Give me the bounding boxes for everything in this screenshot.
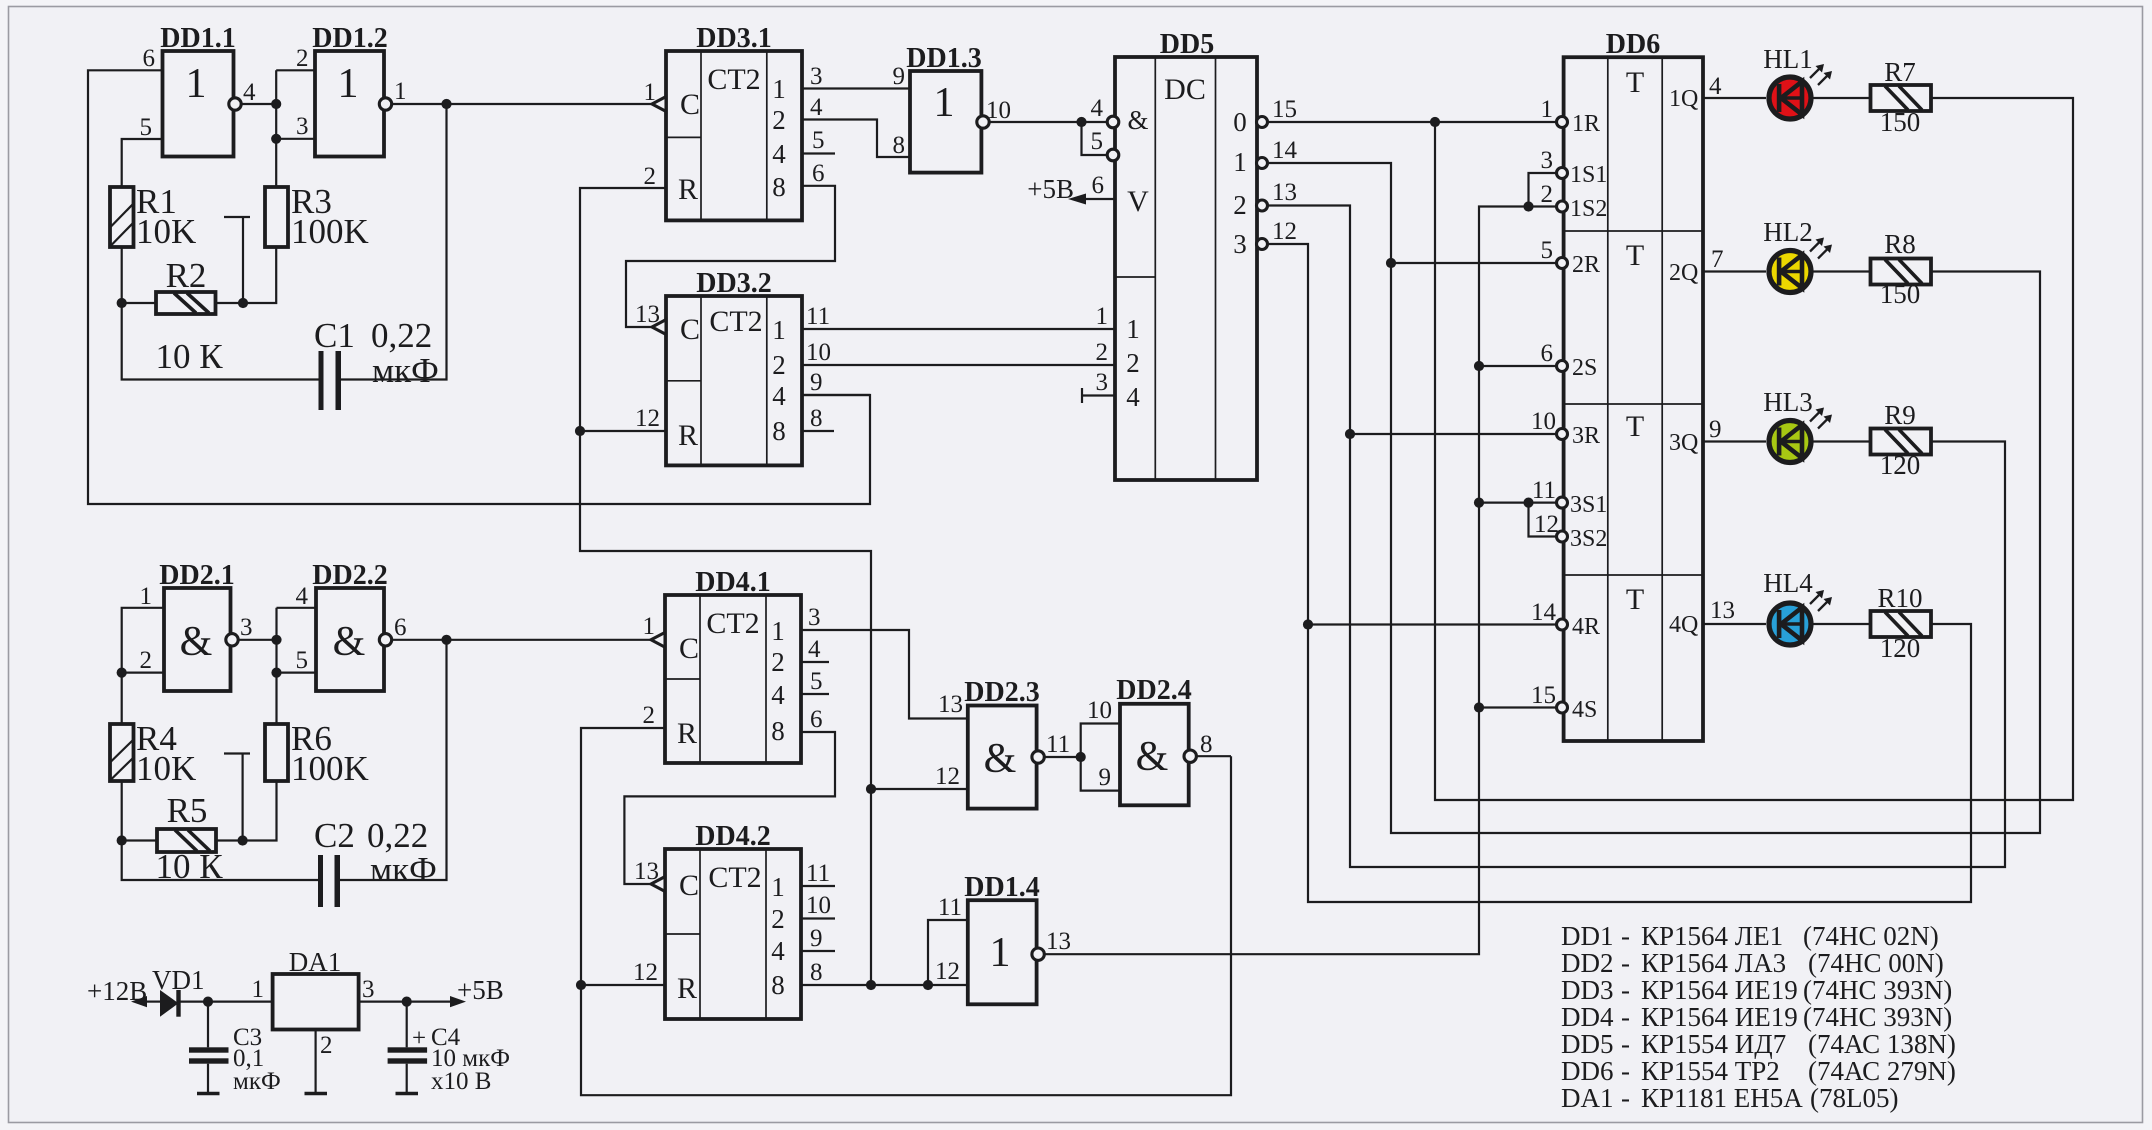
node pin3 [271, 134, 281, 144]
svg-text:13: 13 [1046, 928, 1071, 955]
svg-text:4: 4 [1091, 95, 1104, 122]
svg-text:3: 3 [296, 113, 309, 140]
wire R1 bottom to C1 [122, 247, 319, 380]
node reset tie [866, 980, 876, 990]
svg-text:&: & [180, 619, 213, 665]
+12V input arrow [87, 976, 160, 1007]
counter DD4.1 [643, 567, 802, 763]
svg-text:120: 120 [1880, 450, 1921, 480]
node DD4.2 R [576, 980, 586, 990]
wire HL4 to R10 [1811, 623, 1871, 625]
svg-text:DD1.4: DD1.4 [964, 872, 1039, 903]
svg-text:-: - [1621, 948, 1630, 978]
svg-text:10 К: 10 К [155, 847, 223, 886]
svg-text:HL1: HL1 [1763, 44, 1813, 74]
svg-text:4: 4 [1126, 382, 1140, 412]
svg-text:4: 4 [772, 139, 786, 169]
resistor R5 trimmer [155, 754, 250, 887]
svg-text:DD4.1: DD4.1 [695, 567, 770, 598]
svg-text:15: 15 [1272, 96, 1297, 123]
svg-text:2: 2 [772, 350, 786, 380]
svg-text:T: T [1626, 66, 1644, 99]
wire DD3.1 out4 pin5 stub [802, 152, 835, 154]
ground C4 [396, 1092, 419, 1096]
node reset DD2.3 in12 [866, 784, 876, 794]
wire DD1.4 in11 bracket [928, 920, 968, 985]
svg-text:3: 3 [1541, 147, 1554, 174]
svg-text:3Q: 3Q [1669, 430, 1698, 456]
svg-text:CT2: CT2 [707, 63, 760, 96]
svg-text:DD5: DD5 [1160, 29, 1214, 60]
node C4 [402, 997, 412, 1007]
svg-text:T: T [1626, 239, 1644, 272]
svg-text:VD1: VD1 [152, 965, 205, 995]
svg-text:4: 4 [810, 94, 823, 121]
svg-text:100K: 100K [291, 749, 369, 788]
svg-text:150: 150 [1880, 279, 1921, 309]
svg-text:11: 11 [1532, 477, 1556, 504]
gate DD1.2 [296, 23, 407, 157]
svg-text:1: 1 [643, 613, 656, 640]
svg-text:мкФ: мкФ [372, 351, 439, 390]
regulator DA1 [252, 947, 375, 1059]
svg-text:1: 1 [252, 976, 265, 1003]
wire DD4.2 out2 pin10 stub [801, 917, 835, 919]
resistor R6 [265, 719, 369, 788]
counter DD4.2 [633, 821, 801, 1019]
svg-text:R: R [677, 972, 697, 1005]
svg-text:DD2.2: DD2.2 [312, 560, 387, 591]
diode VD1 [152, 965, 205, 1017]
svg-text:1: 1 [771, 616, 785, 646]
wire DD5 out2 to 3R [1268, 206, 2006, 868]
node R5 right [238, 835, 248, 845]
counter DD3.2 [635, 268, 802, 465]
capacitor C3 [189, 1002, 281, 1095]
svg-text:1: 1 [186, 61, 207, 107]
wire C2 right lead up [340, 640, 447, 880]
node 1S bracket [1523, 201, 1533, 211]
wire DD5 out3 to 4R [1268, 244, 1972, 902]
svg-text:3S1: 3S1 [1570, 492, 1607, 518]
wire DD3.1 out8 pin6 to DD3.2 C [626, 186, 835, 327]
svg-text:2: 2 [1096, 339, 1109, 366]
resistor R8 [1871, 229, 1932, 309]
node 3R [1345, 429, 1355, 439]
svg-text:(74НС 393N): (74НС 393N) [1803, 1002, 1952, 1032]
resistor R3 [265, 182, 369, 251]
svg-text:13: 13 [634, 858, 659, 885]
flip-flop block DD6 [1564, 29, 1703, 741]
svg-text:9: 9 [893, 63, 906, 90]
wire DD5 out1 to 2R [1268, 163, 2041, 833]
svg-text:CT2: CT2 [709, 305, 762, 338]
wire DD4.2 out4 pin9 stub [801, 950, 835, 952]
wire DD4.1 out8 pin6 to DD4.2 C [624, 732, 835, 884]
wire to DD2.2 pin5 [277, 671, 317, 673]
svg-text:3: 3 [1096, 369, 1109, 396]
DD6 input bubbles [1557, 117, 1568, 128]
svg-text:15: 15 [1531, 682, 1556, 709]
svg-text:6: 6 [810, 706, 823, 733]
svg-text:4: 4 [771, 680, 785, 710]
svg-text:6: 6 [1092, 172, 1105, 199]
svg-text:КР1554 ТР2: КР1554 ТР2 [1641, 1056, 1780, 1086]
svg-text:1R: 1R [1572, 111, 1600, 137]
svg-text:КР1564 ЛЕ1: КР1564 ЛЕ1 [1641, 921, 1783, 951]
node DD2.4 bracket [1076, 752, 1086, 762]
svg-text:3: 3 [808, 604, 821, 631]
wire R2 left [122, 302, 156, 304]
svg-text:2: 2 [643, 702, 656, 729]
svg-text:13: 13 [1710, 597, 1735, 624]
svg-text:5: 5 [812, 127, 825, 154]
wire R5 left [122, 839, 157, 841]
svg-text:C: C [679, 632, 699, 665]
wire DD2.3 out to bracket [1044, 756, 1080, 758]
svg-text:150: 150 [1880, 107, 1921, 137]
svg-text:2: 2 [772, 105, 786, 135]
svg-text:5: 5 [1541, 237, 1554, 264]
svg-text:8: 8 [772, 172, 786, 202]
svg-text:8: 8 [810, 959, 823, 986]
wire pin2 [122, 671, 164, 673]
gate DD1.3 [893, 43, 1012, 173]
svg-text:-: - [1621, 1002, 1630, 1032]
svg-text:3R: 3R [1572, 423, 1600, 449]
svg-text:КР1181 ЕН5А: КР1181 ЕН5А [1641, 1083, 1803, 1113]
svg-text:10K: 10K [136, 212, 196, 251]
svg-text:5: 5 [810, 668, 823, 695]
wire DD3.2 R [580, 430, 666, 432]
svg-text:2Q: 2Q [1669, 260, 1698, 286]
resistor R7 [1871, 57, 1932, 137]
LED HL4 [1763, 568, 1832, 645]
node pin5 [271, 668, 281, 678]
wire R2 right to R3 [216, 247, 277, 303]
svg-text:+5В: +5В [457, 975, 504, 1005]
svg-text:2: 2 [1541, 181, 1554, 208]
wire 1S1 bracket [1529, 173, 1559, 207]
svg-text:2: 2 [320, 1032, 333, 1059]
LED HL2 [1763, 217, 1832, 293]
gate DD2.3 [935, 677, 1070, 809]
node R2 right [238, 298, 248, 308]
svg-text:T: T [1626, 410, 1644, 443]
svg-text:CT2: CT2 [708, 861, 761, 894]
wire DD4.2 out8 pin8 to DD1.4 [801, 984, 968, 986]
wire DD1.1 out4 [241, 103, 276, 105]
svg-text:9: 9 [810, 925, 823, 952]
svg-text:9: 9 [810, 369, 823, 396]
svg-text:4: 4 [1709, 73, 1722, 100]
svg-text:12: 12 [633, 959, 658, 986]
svg-text:мкФ: мкФ [370, 850, 437, 889]
svg-text:3: 3 [1233, 229, 1247, 259]
node 3S1 [1474, 498, 1484, 508]
svg-text:2: 2 [771, 904, 785, 934]
svg-text:2: 2 [1126, 348, 1140, 378]
svg-text:DD2: DD2 [1561, 948, 1614, 978]
wire DD1.3 out to DD5 [989, 121, 1107, 123]
svg-text:DD6: DD6 [1561, 1056, 1614, 1086]
wire DA1 pin2 [315, 1030, 317, 1093]
svg-text:C1: C1 [314, 316, 355, 355]
svg-text:1: 1 [771, 872, 785, 902]
svg-text:8: 8 [771, 716, 785, 746]
svg-text:мкФ: мкФ [233, 1068, 281, 1095]
svg-text:13: 13 [938, 691, 963, 718]
svg-text:C: C [679, 869, 699, 902]
svg-text:4: 4 [771, 936, 785, 966]
svg-text:DD1.3: DD1.3 [906, 43, 981, 74]
svg-text:4: 4 [772, 381, 786, 411]
wire 4R branch [1308, 623, 1559, 625]
svg-text:HL3: HL3 [1763, 387, 1813, 417]
svg-text:4Q: 4Q [1669, 612, 1698, 638]
svg-text:1: 1 [394, 78, 407, 105]
svg-text:DA1: DA1 [289, 947, 342, 977]
svg-text:3: 3 [362, 976, 375, 1003]
wire 2S branch [1479, 365, 1559, 367]
wire diode to DA1 [179, 1000, 273, 1002]
wire DD4.2 out1 pin11 stub [801, 885, 835, 887]
gate DD1.4 [935, 872, 1071, 1004]
wire R4 bottom to C2 [122, 781, 318, 880]
svg-text:1: 1 [1096, 303, 1109, 330]
svg-text:1S2: 1S2 [1570, 196, 1607, 222]
svg-text:1: 1 [1126, 314, 1140, 344]
counter DD3.1 [644, 23, 803, 220]
svg-text:1: 1 [1233, 147, 1247, 177]
svg-text:DD2.4: DD2.4 [1116, 675, 1191, 706]
svg-text:2R: 2R [1572, 252, 1600, 278]
svg-text:2: 2 [1233, 190, 1247, 220]
capacitor C4 [388, 1002, 510, 1095]
wire DD3.1 out1 pin3 [802, 87, 910, 89]
wire DD6 out to HL3 [1703, 440, 1766, 442]
wire vertical tie to R3 [275, 70, 277, 187]
svg-text:2: 2 [296, 45, 309, 72]
wire DD4.1 out2 pin4 stub [801, 661, 829, 663]
svg-text:R9: R9 [1884, 400, 1916, 430]
svg-text:5: 5 [296, 647, 309, 674]
wire DD1.2 out1 to DD3.1 C [392, 103, 652, 105]
svg-text:DD3.1: DD3.1 [696, 23, 771, 54]
svg-text:HL4: HL4 [1763, 568, 1813, 598]
svg-text:DA1: DA1 [1561, 1083, 1614, 1113]
svg-text:х10 В: х10 В [431, 1068, 491, 1095]
svg-text:6: 6 [143, 45, 156, 72]
svg-text:11: 11 [938, 894, 962, 921]
wire 4S branch [1479, 706, 1559, 708]
wire HL2 to R8 [1811, 270, 1871, 272]
svg-text:DD3.2: DD3.2 [696, 268, 771, 299]
gate DD1.1 [140, 23, 257, 157]
ground DA1 [305, 1092, 328, 1096]
svg-text:0: 0 [1233, 107, 1247, 137]
node 3S bracket [1523, 498, 1533, 508]
svg-text:10: 10 [986, 97, 1011, 124]
svg-text:-: - [1621, 1029, 1630, 1059]
wire bracket to DD5 pin5 [1082, 122, 1108, 155]
gate DD2.4 [1087, 675, 1213, 805]
svg-text:-: - [1621, 1056, 1630, 1086]
svg-text:2: 2 [140, 647, 153, 674]
svg-text:&: & [1127, 105, 1148, 135]
svg-text:R: R [678, 419, 698, 452]
decoder DD5 [1115, 29, 1257, 480]
LED HL3 [1763, 387, 1832, 463]
svg-text:2S: 2S [1572, 355, 1597, 381]
capacitor C2 [314, 816, 437, 907]
svg-text:120: 120 [1880, 633, 1921, 663]
wire DD3.1 out2 pin4 [802, 120, 910, 158]
wire HL1 to R7 [1811, 97, 1871, 99]
svg-text:R7: R7 [1884, 57, 1916, 87]
wire DD3.2 out4 pin9 feedback [802, 394, 870, 396]
svg-text:100K: 100K [291, 212, 369, 251]
wire vertical tie to R6 [275, 608, 277, 724]
svg-text:DD6: DD6 [1606, 29, 1660, 60]
svg-text:10K: 10K [136, 749, 196, 788]
svg-text:4S: 4S [1572, 697, 1597, 723]
svg-text:1: 1 [772, 315, 786, 345]
svg-text:1: 1 [1541, 96, 1554, 123]
wire to DD1.2 pin2 [276, 69, 315, 71]
svg-text:9: 9 [1709, 416, 1722, 443]
svg-text:8: 8 [810, 405, 823, 432]
svg-text:1: 1 [140, 583, 153, 610]
wire DD3.1 R reset net [580, 188, 871, 986]
svg-text:T: T [1626, 583, 1644, 616]
svg-text:CT2: CT2 [706, 607, 759, 640]
svg-text:R: R [677, 717, 697, 750]
svg-text:8: 8 [1200, 731, 1213, 758]
svg-text:1: 1 [644, 79, 657, 106]
svg-text:(74НС 00N): (74НС 00N) [1808, 948, 1944, 978]
wire 3R branch [1350, 433, 1559, 435]
LED HL1 [1763, 44, 1832, 119]
wire DD2.2 out6 to DD4.1 C [392, 639, 651, 641]
node R5 left [117, 835, 127, 845]
svg-text:2: 2 [644, 163, 657, 190]
svg-text:14: 14 [1531, 599, 1557, 626]
svg-text:11: 11 [1046, 731, 1070, 758]
node reset DD3.2 R [575, 426, 585, 436]
svg-text:КР1554 ИД7: КР1554 ИД7 [1641, 1029, 1786, 1059]
svg-text:R: R [678, 173, 698, 206]
svg-text:DD5: DD5 [1561, 1029, 1614, 1059]
svg-text:10: 10 [806, 339, 831, 366]
wire DD3.2 out8 pin8 stub [802, 430, 834, 432]
node 4R [1303, 619, 1313, 629]
wire DD6 out to HL4 [1703, 623, 1766, 625]
wire DD2.1 inputs tie [122, 608, 164, 724]
svg-text:HL2: HL2 [1763, 217, 1813, 247]
svg-text:3: 3 [240, 614, 253, 641]
svg-text:12: 12 [935, 763, 960, 790]
svg-text:6: 6 [1541, 340, 1554, 367]
wire DA1 out [359, 1000, 452, 1002]
svg-text:0,22: 0,22 [371, 316, 432, 355]
node 2S [1474, 361, 1484, 371]
svg-text:C: C [680, 313, 700, 346]
svg-text:-: - [1621, 975, 1630, 1005]
svg-text:12: 12 [935, 958, 960, 985]
svg-text:4: 4 [296, 583, 309, 610]
svg-text:13: 13 [1272, 179, 1297, 206]
node out4 [271, 99, 281, 109]
wire 3S1 branch [1479, 502, 1559, 504]
wire 1R net vertical+bus [1435, 98, 2073, 800]
svg-text:10: 10 [806, 892, 831, 919]
svg-text:8: 8 [893, 132, 906, 159]
node pin2 tie [117, 668, 127, 678]
wire DD5 out0 to DD6 1R [1268, 121, 1559, 123]
svg-text:5: 5 [140, 114, 153, 141]
svg-text:4: 4 [808, 636, 821, 663]
svg-text:1: 1 [338, 61, 359, 107]
svg-text:&: & [333, 619, 366, 665]
svg-text:C2: C2 [314, 816, 355, 855]
svg-text:13: 13 [635, 301, 660, 328]
svg-text:C: C [680, 88, 700, 121]
wire DD4.1 out4 pin5 stub [801, 693, 829, 695]
wire DD6 out to HL2 [1703, 270, 1766, 272]
svg-text:(78L05): (78L05) [1810, 1083, 1898, 1113]
wire DD3.2 out2 pin10 to DD5 [802, 364, 1115, 366]
node DD5 in4 [1076, 117, 1086, 127]
svg-text:DD3: DD3 [1561, 975, 1614, 1005]
svg-text:3S2: 3S2 [1570, 526, 1607, 552]
svg-text:1Q: 1Q [1669, 86, 1698, 112]
svg-text:6: 6 [394, 614, 407, 641]
wire to DD1.2 pin3 [276, 138, 315, 140]
node DD1.4 in tie [923, 980, 933, 990]
svg-text:12: 12 [635, 405, 660, 432]
DD5 output bubbles [1257, 117, 1268, 128]
resistor R4 [110, 719, 196, 788]
wire DD4.2 R [581, 984, 665, 986]
svg-text:12: 12 [1272, 218, 1297, 245]
resistor R1 [110, 182, 196, 251]
svg-text:&: & [1136, 734, 1169, 780]
svg-text:(74АС 279N): (74АС 279N) [1808, 1056, 1956, 1086]
svg-text:DD2.3: DD2.3 [964, 677, 1039, 708]
wire DD4.1 R [581, 728, 1231, 1095]
wire R5 right to R6 [216, 781, 277, 841]
svg-text:1: 1 [990, 930, 1011, 976]
svg-text:6: 6 [812, 160, 825, 187]
wire S net from DD1.4 [1044, 207, 1558, 955]
wire DD3.2 out1 pin11 to DD5 [802, 328, 1115, 330]
svg-text:DD1: DD1 [1561, 921, 1614, 951]
wire DD6 out to HL1 [1703, 97, 1766, 99]
wire DD1.1 pin5 to R1 [122, 139, 163, 187]
ground C3 [197, 1092, 220, 1096]
svg-text:DD1.1: DD1.1 [160, 23, 235, 54]
svg-text:(74НС 393N): (74НС 393N) [1803, 975, 1952, 1005]
svg-text:DD4.2: DD4.2 [695, 821, 770, 852]
pin4 bubble [1107, 116, 1119, 128]
svg-text:&: & [984, 736, 1017, 782]
node 1R net [1430, 117, 1440, 127]
pin3 stub with tick [1082, 394, 1115, 396]
resistor R9 [1871, 400, 1932, 480]
svg-text:1: 1 [772, 74, 786, 104]
svg-text:DC: DC [1164, 73, 1206, 106]
